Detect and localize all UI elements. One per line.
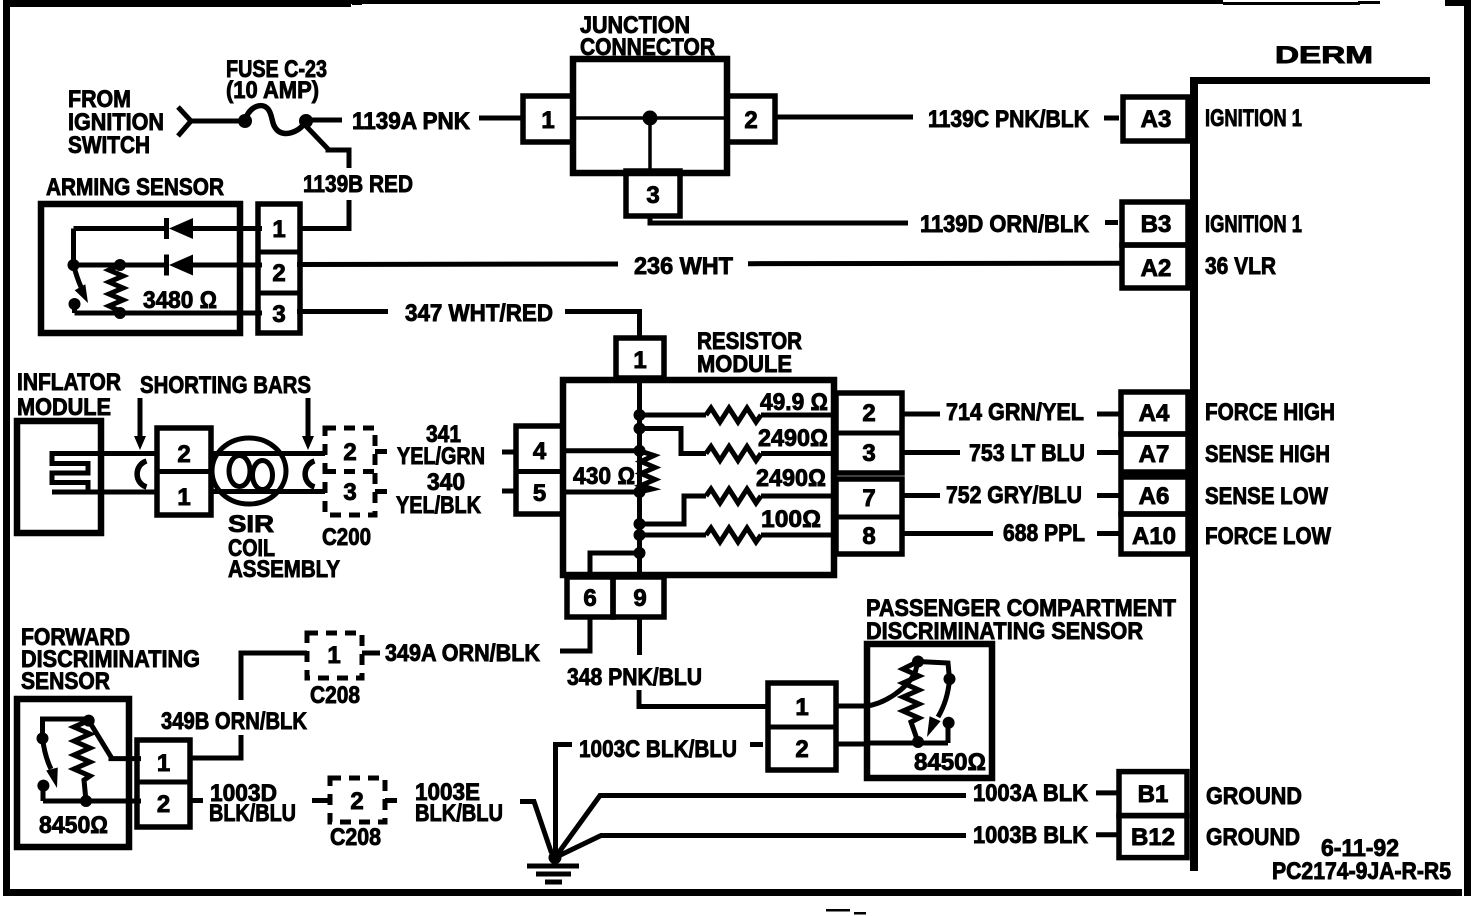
ground node <box>549 851 562 864</box>
wire <box>300 200 349 229</box>
wire pin4 <box>561 448 640 453</box>
wire <box>479 116 524 121</box>
svg-text:1139A PNK: 1139A PNK <box>352 108 471 135</box>
svg-text:2490Ω: 2490Ω <box>756 465 826 492</box>
svg-text:2: 2 <box>795 736 808 763</box>
wire 347 WHT/RED <box>297 309 388 314</box>
svg-text:8: 8 <box>862 523 875 550</box>
left vertical <box>71 229 76 266</box>
svg-text:753 LT BLU: 753 LT BLU <box>969 440 1085 467</box>
module pins 4,5 <box>516 426 563 514</box>
igniter <box>52 454 99 493</box>
resistor 3480 ohm <box>109 265 123 313</box>
svg-text:SENSOR: SENSOR <box>21 668 110 695</box>
svg-text:348 PNK/BLU: 348 PNK/BLU <box>567 664 702 691</box>
svg-text:A2: A2 <box>1141 255 1172 282</box>
switch arm <box>74 265 82 287</box>
pin6 jog <box>590 553 640 577</box>
svg-text:5: 5 <box>533 480 546 507</box>
svg-text:2: 2 <box>157 791 170 818</box>
svg-text:MODULE: MODULE <box>17 394 111 421</box>
DERM pin A6 <box>1121 477 1188 514</box>
svg-text:C208: C208 <box>310 682 360 709</box>
svg-text:SENSE HIGH: SENSE HIGH <box>1205 441 1330 468</box>
resistor 8450 <box>903 662 919 743</box>
svg-text:7: 7 <box>862 485 875 512</box>
svg-text:YEL/BLK: YEL/BLK <box>396 492 482 519</box>
svg-text:8450Ω: 8450Ω <box>39 812 108 839</box>
svg-text:FORCE LOW: FORCE LOW <box>1205 523 1331 550</box>
svg-text:36 VLR: 36 VLR <box>1205 253 1276 280</box>
wire 1139B <box>306 126 349 168</box>
svg-text:1139B RED: 1139B RED <box>303 171 413 198</box>
svg-text:2: 2 <box>350 788 363 815</box>
svg-text:ARMING SENSOR: ARMING SENSOR <box>46 174 224 201</box>
wire junction pin2 to 1139C <box>775 115 913 120</box>
wire 714 GRN/YEL <box>902 412 940 417</box>
svg-text:1: 1 <box>795 694 808 721</box>
DERM pin A7 <box>1121 434 1188 472</box>
svg-text:9: 9 <box>633 585 646 612</box>
svg-text:BLK/BLU: BLK/BLU <box>415 800 503 827</box>
svg-text:49.9 Ω: 49.9 Ω <box>760 389 828 416</box>
svg-text:1: 1 <box>272 216 285 243</box>
chevron <box>178 107 191 136</box>
module box <box>563 380 834 575</box>
svg-text:6: 6 <box>583 585 596 612</box>
wire 349B <box>241 653 292 700</box>
svg-text:IGNITION 1: IGNITION 1 <box>1205 105 1302 132</box>
svg-text:236 WHT: 236 WHT <box>634 253 733 280</box>
wire pin5 <box>561 490 640 495</box>
svg-text:2: 2 <box>177 441 190 468</box>
svg-text:1139C PNK/BLK: 1139C PNK/BLK <box>928 106 1090 133</box>
svg-text:3: 3 <box>272 301 285 328</box>
DERM pin B12 <box>1119 816 1187 858</box>
wire 688 PPL <box>902 531 993 536</box>
svg-text:GROUND: GROUND <box>1206 824 1300 851</box>
DERM pin A10 <box>1121 514 1188 554</box>
svg-text:349B ORN/BLK: 349B ORN/BLK <box>161 708 308 735</box>
svg-text:8450Ω: 8450Ω <box>914 749 986 776</box>
wire 753 LT BLU <box>902 450 960 455</box>
svg-text:347 WHT/RED: 347 WHT/RED <box>405 300 553 327</box>
svg-text:4: 4 <box>533 438 547 465</box>
node <box>69 298 81 310</box>
svg-text:SIR: SIR <box>228 511 274 538</box>
svg-text:SENSE LOW: SENSE LOW <box>1205 483 1328 510</box>
node <box>68 259 80 271</box>
DERM pin A2 <box>1122 245 1188 288</box>
wire 752 GRY/BLU <box>902 493 940 498</box>
dash <box>1104 116 1119 121</box>
wire 1003A <box>555 796 966 858</box>
pass connector pins 1,2 <box>768 683 836 770</box>
shorting bar bracket 2 <box>305 461 314 487</box>
svg-text:1: 1 <box>177 484 190 511</box>
svg-text:A4: A4 <box>1139 400 1170 427</box>
shorting bar bracket 1 <box>137 461 146 487</box>
DERM pin A3 <box>1123 97 1188 141</box>
connector C208 pin 1 <box>362 651 380 656</box>
svg-text:1: 1 <box>633 347 646 374</box>
svg-text:1: 1 <box>157 750 170 777</box>
svg-text:A6: A6 <box>1139 483 1170 510</box>
DERM pin B1 <box>1119 772 1187 816</box>
svg-text:DERM: DERM <box>1275 42 1373 69</box>
svg-text:C200: C200 <box>322 524 371 551</box>
svg-text:2490Ω: 2490Ω <box>758 425 828 452</box>
wire 1003D <box>190 798 203 803</box>
pass sensor internals <box>867 662 918 707</box>
wire row1 <box>74 226 169 231</box>
ground symbol <box>527 864 579 869</box>
svg-text:752 GRY/BLU: 752 GRY/BLU <box>946 482 1082 509</box>
diode D1 <box>164 218 169 239</box>
svg-text:A10: A10 <box>1132 523 1176 550</box>
wires to connector <box>54 490 158 495</box>
svg-text:SHORTING BARS: SHORTING BARS <box>140 372 311 399</box>
inflator connector pins 2,1 <box>157 428 211 515</box>
svg-text:B12: B12 <box>1131 824 1175 851</box>
fwd sensor internals <box>43 719 89 738</box>
module pins 6,9 <box>567 577 613 617</box>
svg-text:BLK/BLU: BLK/BLU <box>209 800 296 827</box>
svg-text:1139D ORN/BLK: 1139D ORN/BLK <box>920 211 1090 238</box>
wire pin9 to 348 <box>637 617 642 655</box>
resistor 8450 <box>74 721 90 801</box>
wire 236 WHT <box>297 262 618 268</box>
dash <box>1105 220 1118 225</box>
svg-text:1: 1 <box>327 642 340 669</box>
svg-text:3: 3 <box>646 182 659 209</box>
border frame <box>3 0 10 896</box>
svg-text:714 GRN/YEL: 714 GRN/YEL <box>946 399 1084 426</box>
svg-text:2: 2 <box>744 107 757 134</box>
svg-text:2: 2 <box>272 260 285 287</box>
bottom wire <box>43 799 141 804</box>
diode D2 <box>164 255 169 276</box>
wire pin6 to 349A <box>560 617 590 651</box>
wire <box>639 690 768 707</box>
svg-text:2: 2 <box>343 439 356 466</box>
svg-text:100Ω: 100Ω <box>761 506 821 533</box>
diagonal to pin1 <box>89 721 141 759</box>
connector C208 pin 2 <box>312 798 330 803</box>
wires through coil <box>211 451 325 456</box>
junction node <box>643 111 658 126</box>
wire 1003B <box>555 836 966 858</box>
svg-text:B1: B1 <box>1138 781 1169 808</box>
wire 1003C <box>556 745 573 856</box>
svg-text:A3: A3 <box>1141 106 1172 133</box>
DERM pin B3 <box>1122 202 1188 245</box>
svg-text:IGNITION 1: IGNITION 1 <box>1205 211 1302 238</box>
svg-text:3: 3 <box>343 479 356 506</box>
svg-text:430 Ω: 430 Ω <box>573 463 635 490</box>
internal bus <box>637 378 642 575</box>
svg-text:B3: B3 <box>1141 211 1172 238</box>
svg-text:(10 AMP): (10 AMP) <box>226 77 319 104</box>
fwd connector pins 1,2 <box>137 740 190 827</box>
svg-text:349A ORN/BLK: 349A ORN/BLK <box>385 640 541 667</box>
wire to ground <box>520 802 552 854</box>
switch arm <box>938 679 950 717</box>
module pins 7,8 <box>836 479 902 554</box>
wire <box>306 118 342 123</box>
bottom wire <box>867 741 948 746</box>
wire <box>191 119 240 124</box>
junction pin 1 <box>523 96 573 142</box>
svg-text:1003B BLK: 1003B BLK <box>973 822 1089 849</box>
svg-text:YEL/GRN: YEL/GRN <box>397 443 485 470</box>
wire row2 <box>74 263 169 268</box>
svg-text:C208: C208 <box>330 824 381 851</box>
svg-text:MODULE: MODULE <box>697 351 792 378</box>
connector C200 <box>325 428 375 515</box>
svg-text:3: 3 <box>862 440 875 467</box>
svg-text:PC2174-9JA-R-R5: PC2174-9JA-R-R5 <box>1272 858 1451 885</box>
svg-text:INFLATOR: INFLATOR <box>17 369 121 396</box>
wire row3 <box>75 311 263 316</box>
switch arm <box>43 738 52 769</box>
junction pin 2 <box>727 96 775 142</box>
arrow 2 <box>306 398 311 438</box>
wire <box>190 735 241 758</box>
arrow 1 <box>138 398 143 438</box>
SIR coil assembly <box>212 438 286 504</box>
wires to sensor <box>836 704 867 709</box>
junction internal wires <box>573 116 727 120</box>
DERM pin A4 <box>1121 392 1188 434</box>
junction pin 3 <box>626 171 680 216</box>
svg-text:688 PPL: 688 PPL <box>1003 520 1085 547</box>
svg-text:1003A BLK: 1003A BLK <box>973 780 1089 807</box>
module pin 1 <box>616 338 664 378</box>
svg-text:1003C BLK/BLU: 1003C BLK/BLU <box>579 736 737 763</box>
svg-text:2: 2 <box>862 400 875 427</box>
wire junction pin3 to 1139D <box>650 216 908 223</box>
module pins 2,3 <box>836 393 902 473</box>
svg-text:3480 Ω: 3480 Ω <box>143 287 217 314</box>
svg-text:GROUND: GROUND <box>1206 783 1302 810</box>
arming connector pins <box>258 204 300 333</box>
svg-text:FORCE HIGH: FORCE HIGH <box>1205 399 1335 426</box>
svg-text:ASSEMBLY: ASSEMBLY <box>228 556 340 583</box>
svg-text:1: 1 <box>541 107 554 134</box>
svg-text:SWITCH: SWITCH <box>68 132 150 159</box>
svg-text:A7: A7 <box>1139 441 1170 468</box>
